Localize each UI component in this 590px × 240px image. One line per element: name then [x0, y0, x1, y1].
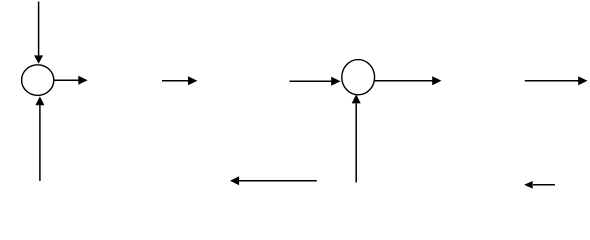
wire: feedback arrow up into summing junction S2: [352, 94, 361, 182]
wire: arrow into summing junction S2: [290, 77, 341, 86]
wire: bottom right leftward arrow: [524, 181, 555, 189]
wire: middle rightward arrow: [162, 76, 197, 85]
wire: input arrow down into summing junction S1: [34, 2, 43, 64]
summing junction S1: [22, 65, 54, 96]
summing junction S2: [342, 60, 375, 95]
wire: feedback arrow up into summing junction S1: [35, 96, 44, 181]
wire: bottom middle leftward arrow: [230, 176, 317, 185]
wire: top right rightward arrow: [525, 76, 588, 85]
wire: output arrow right from summing junction S1: [54, 76, 88, 85]
wire: output arrow right from summing junction S2: [375, 76, 442, 85]
